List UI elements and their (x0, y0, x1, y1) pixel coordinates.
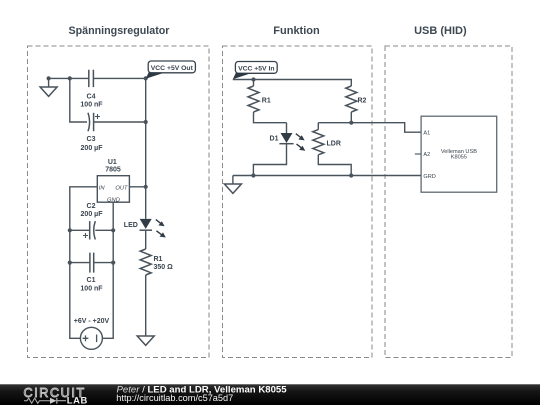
wire IN pin (70, 187, 98, 338)
label +6V - +20V (74, 318, 110, 325)
svg-text:R1: R1 (262, 98, 271, 105)
svg-text:C3: C3 (87, 136, 96, 143)
capacitor C3 (polarized) (88, 113, 146, 131)
label U1 (108, 159, 117, 166)
svg-text:http://circuitlab.com/c57a5d7: http://circuitlab.com/c57a5d7 (116, 393, 233, 403)
wire top rail Funktion (233, 80, 351, 87)
node dot ground top (47, 76, 51, 80)
node dot C1 left (68, 261, 72, 265)
wire left rail upper (70, 78, 87, 122)
node dot D1 ground (251, 173, 255, 177)
svg-text:A1: A1 (423, 130, 430, 136)
ground (under R1) (137, 336, 154, 345)
node dot C3 right (144, 120, 148, 124)
net flag VCC +5V In (233, 62, 277, 80)
resistor R2 (346, 86, 357, 123)
svg-text:+6V - +20V: +6V - +20V (74, 318, 110, 325)
pin label A2 (423, 152, 430, 158)
node dot R1 top (251, 77, 255, 81)
value 200 µF (C3) (81, 145, 104, 152)
footer bar (0, 384, 540, 405)
svg-text:VCC +5V Out: VCC +5V Out (151, 65, 194, 72)
value 7805 (105, 167, 121, 174)
svg-text:Spänningsregulator: Spänningsregulator (69, 25, 170, 37)
svg-text:C4: C4 (87, 93, 96, 100)
label R2 (358, 98, 367, 105)
resistor R1 (350 Ω) (140, 249, 151, 336)
main output rail (145, 78, 147, 219)
wire top rail right (93, 77, 145, 79)
LED diode (140, 219, 153, 249)
node dot C2 right (111, 228, 115, 232)
capacitor C2 (polarized) (70, 221, 113, 239)
svg-text:R1: R1 (154, 256, 163, 263)
svg-text:A2: A2 (423, 152, 430, 158)
pin stub A2 (415, 153, 421, 155)
svg-text:350 Ω: 350 Ω (154, 264, 174, 271)
dashed box USB (HID) (385, 46, 512, 358)
pin label A1 (423, 130, 430, 136)
svg-text:IN: IN (99, 186, 106, 192)
svg-text:OUT: OUT (115, 186, 128, 192)
USB interface box Velleman K8055 (421, 116, 497, 192)
label K8055 (451, 155, 467, 161)
svg-text:U1: U1 (108, 159, 117, 166)
logo CIRCUIT (24, 386, 86, 400)
svg-text:VCC +5V In: VCC +5V In (238, 65, 274, 72)
value 100 nF (C4) (80, 101, 103, 108)
svg-text:100 nF: 100 nF (80, 285, 103, 292)
photoresistor LDR (313, 123, 351, 176)
wire top rail left (49, 77, 89, 79)
svg-text:R2: R2 (358, 98, 367, 105)
value 100 nF (C1) (80, 285, 103, 292)
logo LAB (67, 394, 88, 405)
label R1 (154, 256, 163, 263)
net flag VCC +5V Out (146, 61, 196, 79)
resistor R1 (Funktion) (248, 80, 287, 123)
voltage source V1 (80, 327, 102, 349)
label C2 (87, 203, 96, 210)
svg-text:100 nF: 100 nF (80, 101, 103, 108)
LED D1 (253, 123, 293, 176)
node dot LDR ground (349, 173, 353, 177)
svg-text:K8055: K8055 (451, 155, 467, 161)
label C1 (87, 277, 96, 284)
label LED (124, 222, 138, 229)
node dot OUT (144, 185, 148, 189)
node junction left rail top (68, 76, 72, 80)
node dot C1 right (111, 261, 115, 265)
pin label GND (107, 198, 120, 204)
label LDR (327, 141, 341, 148)
LED emission arrows (156, 220, 166, 238)
node dot VCC out (144, 76, 148, 80)
value 350 Ω (154, 264, 174, 271)
node dot R2 bottom (349, 121, 353, 125)
ground (top left) (40, 78, 57, 96)
label R1 (Funktion) (262, 98, 271, 105)
section title USB (HID) (414, 25, 467, 37)
svg-text:LDR: LDR (327, 141, 341, 148)
dashed box Funktion (223, 46, 373, 358)
section title Funktion (273, 25, 320, 37)
ground (Funktion) (224, 176, 241, 194)
capacitor C4 (89, 70, 94, 87)
capacitor C1 (70, 253, 113, 273)
label Velleman USB (441, 149, 477, 155)
pin label GRD (423, 174, 435, 180)
value 200 µF (C2) (81, 211, 104, 218)
pin label IN (99, 186, 106, 192)
footer url (116, 393, 233, 403)
svg-text:200 µF: 200 µF (81, 145, 104, 152)
svg-text:Funktion: Funktion (273, 25, 320, 37)
svg-text:200 µF: 200 µF (81, 211, 104, 218)
svg-text:C1: C1 (87, 277, 96, 284)
node dot C2 left (68, 228, 72, 232)
dashed box Spänningsregulator (28, 46, 210, 358)
pin label OUT (115, 186, 128, 192)
logo resistor-diode glyph (24, 398, 66, 404)
svg-text:7805: 7805 (105, 167, 121, 174)
label C4 (87, 93, 96, 100)
regulator U1 box (97, 176, 129, 203)
svg-text:D1: D1 (270, 136, 279, 143)
wire GND pin down (102, 202, 113, 338)
footer author title (117, 384, 288, 395)
svg-text:GRD: GRD (423, 174, 435, 180)
ground wire Funktion to GRD (233, 175, 421, 177)
svg-text:LAB: LAB (67, 394, 88, 405)
svg-text:C2: C2 (87, 203, 96, 210)
svg-text:LED: LED (124, 222, 138, 229)
section title Spänningsregulator (69, 25, 170, 37)
label C3 (87, 136, 96, 143)
wire OUT pin (129, 186, 145, 188)
label D1 (270, 136, 279, 143)
wire LDR top to A1 (318, 123, 421, 133)
D1 emission arrows (296, 134, 306, 151)
svg-text:USB (HID): USB (HID) (414, 25, 467, 37)
